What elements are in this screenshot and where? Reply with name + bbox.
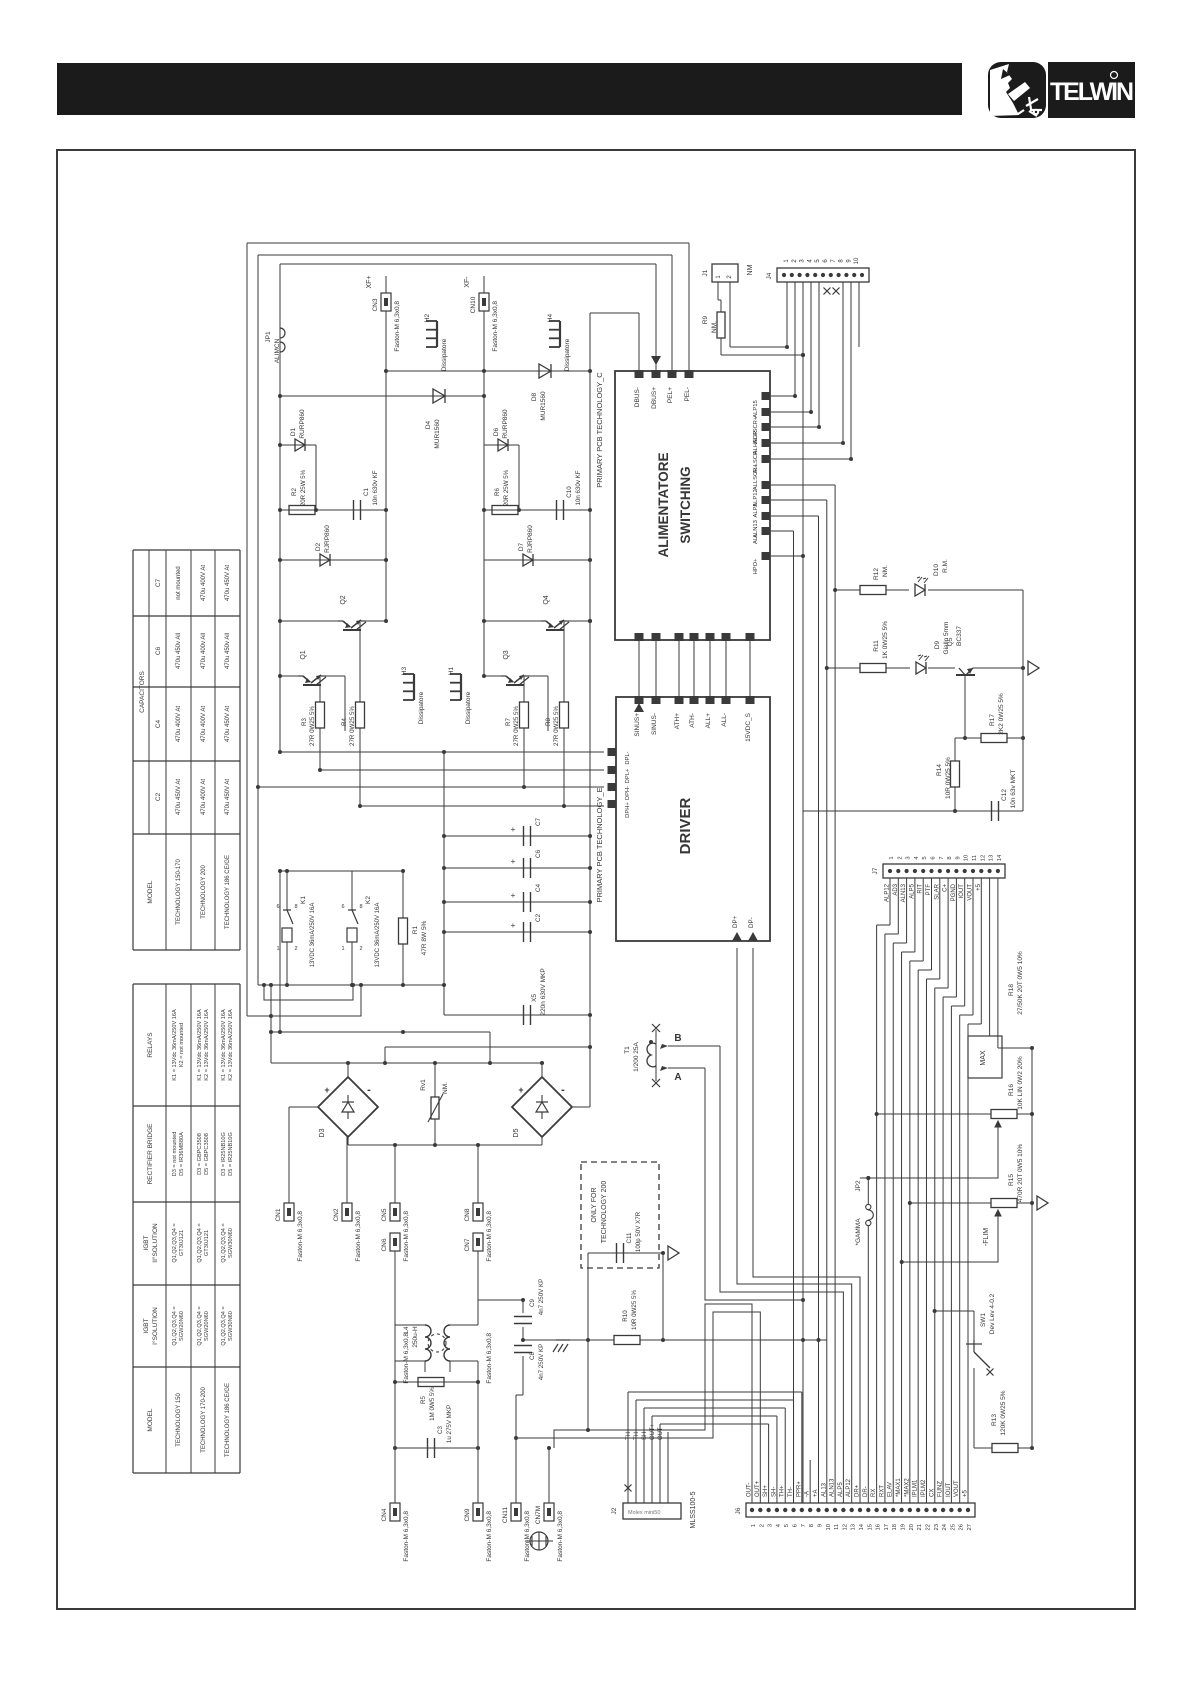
svg-text:10R 0W25 5%: 10R 0W25 5% (631, 1290, 638, 1330)
svg-text:Q4: Q4 (543, 595, 550, 604)
svg-text:SGW20N60: SGW20N60 (204, 1311, 210, 1341)
svg-text:1M 0W5 5%: 1M 0W5 5% (429, 1387, 436, 1421)
svg-text:PEL-: PEL- (684, 387, 691, 401)
svg-text:SGW20N60: SGW20N60 (179, 1311, 185, 1341)
svg-text:1: 1 (341, 946, 344, 952)
svg-text:D5 = IR36MB80A: D5 = IR36MB80A (179, 1132, 185, 1176)
svg-text:C2: C2 (535, 913, 542, 922)
svg-text:1: 1 (276, 946, 279, 952)
svg-text:ALIMCN: ALIMCN (274, 338, 281, 363)
svg-text:27R 0W25 5%: 27R 0W25 5% (309, 706, 316, 746)
svg-text:C1: C1 (363, 487, 370, 495)
svg-text:DP-: DP- (748, 917, 755, 928)
svg-text:470R 20T 0W5 10%: 470R 20T 0W5 10% (1017, 1144, 1024, 1203)
svg-text:+: + (518, 1085, 523, 1095)
svg-text:D1: D1 (290, 427, 297, 436)
svg-text:II°SOLUTION: II°SOLUTION (151, 1223, 159, 1263)
svg-text:13VDC 36mA/250V 16A: 13VDC 36mA/250V 16A (310, 903, 316, 968)
svg-text:10n 630v KF: 10n 630v KF (575, 470, 582, 505)
svg-text:470u 450V At: 470u 450V At (225, 706, 231, 742)
svg-text:R14: R14 (936, 764, 943, 776)
svg-text:MODEL: MODEL (147, 880, 154, 904)
svg-text:ALP12: ALP12 (846, 1478, 852, 1497)
svg-text:K2 = not mounted: K2 = not mounted (179, 1023, 185, 1067)
svg-text:AL13: AL13 (821, 1482, 827, 1497)
svg-text:DPL-: DPL- (625, 751, 631, 764)
svg-text:12: 12 (980, 855, 986, 861)
svg-text:10: 10 (854, 257, 860, 264)
svg-text:IGBT: IGBT (143, 1235, 150, 1250)
svg-text:R11: R11 (873, 640, 880, 652)
svg-text:NM.: NM. (711, 321, 718, 333)
svg-text:TH+: TH+ (780, 1485, 786, 1497)
svg-text:ALL-: ALL- (721, 713, 728, 727)
svg-text:Q1,Q2,Q3,Q4 =: Q1,Q2,Q3,Q4 = (197, 1306, 203, 1345)
svg-text:R16: R16 (1008, 1084, 1015, 1096)
svg-text:Q1,Q2,Q3,Q4 =: Q1,Q2,Q3,Q4 = (221, 1306, 227, 1345)
svg-text:C9: C9 (529, 1298, 536, 1306)
svg-text:22: 22 (925, 1524, 931, 1530)
svg-text:IPLM1: IPLM1 (913, 1479, 919, 1497)
svg-text:K1: K1 (300, 896, 307, 904)
svg-text:470u 400V At: 470u 400V At (201, 779, 207, 815)
svg-text:H2: H2 (424, 313, 431, 322)
svg-text:Molex mini50: Molex mini50 (628, 1510, 660, 1516)
svg-text:+: + (511, 921, 516, 930)
svg-text:-: - (367, 1084, 371, 1096)
svg-text:DR-: DR- (863, 1486, 869, 1497)
svg-text:25: 25 (950, 1524, 956, 1530)
svg-text:Faston-M 6,3x0,8: Faston-M 6,3x0,8 (524, 1511, 531, 1562)
svg-text:Dissipatore: Dissipatore (418, 691, 425, 724)
svg-text:Faston-M 6,3x0,8: Faston-M 6,3x0,8 (403, 1511, 410, 1562)
svg-text:RX: RX (871, 1489, 877, 1497)
svg-text:SINUS+: SINUS+ (634, 713, 641, 737)
svg-text:DPH-: DPH- (625, 786, 631, 800)
svg-text:ATH-: ATH- (689, 713, 696, 728)
svg-text:ATH+: ATH+ (674, 713, 681, 730)
svg-text:JP1: JP1 (265, 331, 272, 343)
svg-text:H3: H3 (401, 666, 408, 675)
svg-text:TECHNOLOGY 186 CE/GE: TECHNOLOGY 186 CE/GE (225, 1383, 231, 1457)
svg-text:J1: J1 (702, 269, 709, 276)
svg-text:8: 8 (947, 856, 953, 859)
svg-text:10: 10 (826, 1524, 832, 1530)
svg-text:OUT-: OUT- (747, 1483, 753, 1497)
svg-text:3: 3 (906, 856, 912, 859)
svg-text:7: 7 (801, 1524, 807, 1527)
svg-text:1: 1 (751, 1524, 757, 1527)
svg-text:Faston-M 6,3x0,8: Faston-M 6,3x0,8 (486, 1333, 493, 1384)
svg-text:D10: D10 (933, 564, 940, 576)
svg-text:*MAX2: *MAX2 (904, 1478, 910, 1497)
svg-text:10n 630v KF: 10n 630v KF (372, 470, 379, 505)
svg-text:17: 17 (884, 1524, 890, 1530)
svg-text:K2: K2 (365, 896, 372, 904)
svg-text:OUT+: OUT+ (755, 1480, 761, 1497)
svg-text:TH-: TH- (788, 1487, 794, 1497)
svg-text:DBUS+: DBUS+ (651, 387, 658, 409)
svg-text:15: 15 (867, 1524, 873, 1530)
svg-text:ALLSCR+: ALLSCR+ (753, 464, 759, 491)
svg-text:470u 450v All: 470u 450v All (225, 633, 231, 669)
svg-text:RECTIFIER BRIDGE: RECTIFIER BRIDGE (147, 1123, 154, 1185)
svg-text:16: 16 (876, 1524, 882, 1530)
svg-text:4n7 250V KP: 4n7 250V KP (538, 1279, 545, 1315)
svg-text:21: 21 (917, 1524, 923, 1530)
svg-text:+: + (511, 891, 516, 900)
svg-text:470u 450V At: 470u 450V At (225, 565, 231, 601)
svg-text:TECHNOLOGY 186 CE/GE: TECHNOLOGY 186 CE/GE (225, 855, 231, 929)
svg-text:8: 8 (809, 1524, 815, 1527)
svg-text:ALL: ALL (753, 533, 759, 544)
svg-text:+: + (511, 825, 516, 834)
svg-text:Q1,Q2,Q3,Q4 =: Q1,Q2,Q3,Q4 = (221, 1223, 227, 1262)
svg-text:H4: H4 (547, 313, 554, 322)
svg-text:DPH+: DPH+ (625, 802, 631, 818)
svg-text:Dissipatore: Dissipatore (564, 338, 571, 371)
svg-text:RELAYS: RELAYS (147, 1032, 154, 1058)
svg-text:R10: R10 (622, 1310, 629, 1322)
svg-text:TECHNOLOGY 150: TECHNOLOGY 150 (176, 1393, 182, 1447)
svg-text:8: 8 (359, 904, 362, 910)
svg-text:10: 10 (964, 855, 970, 861)
svg-text:ALP5: ALP5 (753, 503, 759, 517)
svg-text:NM.: NM. (442, 1082, 449, 1094)
svg-text:R12: R12 (873, 568, 880, 580)
svg-text:J2: J2 (611, 1507, 618, 1514)
svg-text:220n 630V MKP: 220n 630V MKP (540, 968, 547, 1015)
svg-text:XF-: XF- (464, 276, 471, 288)
svg-text:IOUT: IOUT (946, 1482, 952, 1497)
svg-text:27R 0W25 5%: 27R 0W25 5% (349, 706, 356, 746)
svg-text:DPL+: DPL+ (625, 768, 631, 783)
svg-text:K1 = 13Vdc 36mA/250V 16A: K1 = 13Vdc 36mA/250V 16A (197, 1009, 203, 1081)
svg-text:R7: R7 (505, 717, 512, 725)
svg-text:CN3: CN3 (372, 298, 379, 311)
svg-text:10n 63v MKT: 10n 63v MKT (1010, 770, 1017, 809)
svg-text:BC337: BC337 (956, 626, 963, 646)
svg-text:K1 = 13Vdc 36mA/250V 16A: K1 = 13Vdc 36mA/250V 16A (221, 1009, 227, 1081)
svg-text:27R 0W25 5%: 27R 0W25 5% (513, 706, 520, 746)
svg-text:120K 0W25 5%: 120K 0W25 5% (1000, 1390, 1007, 1435)
svg-text:MODEL: MODEL (147, 1408, 154, 1432)
svg-text:R9: R9 (702, 315, 709, 324)
svg-text:Faston-M 6,3x0,8: Faston-M 6,3x0,8 (403, 1333, 410, 1384)
svg-text:6: 6 (931, 856, 937, 859)
svg-text:11: 11 (834, 1524, 840, 1530)
svg-text:D3 = IR25NB10G: D3 = IR25NB10G (221, 1132, 227, 1176)
svg-text:K1 = 13Vdc 36mA/250V 16A: K1 = 13Vdc 36mA/250V 16A (172, 1009, 178, 1081)
svg-text:14: 14 (859, 1523, 865, 1530)
svg-text:C8: C8 (529, 1351, 536, 1359)
svg-text:D6: D6 (493, 427, 500, 436)
svg-text:D5: D5 (513, 1128, 520, 1137)
svg-text:R1: R1 (412, 925, 419, 934)
svg-text:3: 3 (768, 1524, 774, 1527)
svg-text:CN4: CN4 (381, 1508, 388, 1521)
svg-text:Faston-M 6,3x0,8: Faston-M 6,3x0,8 (394, 301, 401, 352)
svg-text:CX: CX (929, 1489, 935, 1497)
svg-text:20: 20 (909, 1524, 915, 1530)
svg-text:FUNZ: FUNZ (938, 1481, 944, 1497)
svg-text:PRIMARY PCB TECHNOLOGY_E: PRIMARY PCB TECHNOLOGY_E (595, 787, 604, 902)
svg-text:CN6: CN6 (381, 1238, 388, 1251)
svg-text:470u 400V At: 470u 400V At (176, 706, 182, 742)
svg-text:ALP15: ALP15 (753, 400, 759, 417)
svg-text:Q1,Q2,Q3,Q4 =: Q1,Q2,Q3,Q4 = (172, 1306, 178, 1345)
svg-text:T1: T1 (624, 1046, 631, 1054)
svg-text:SH+: SH+ (763, 1485, 769, 1497)
svg-text:10K LIN 0W2 20%: 10K LIN 0W2 20% (1017, 1056, 1024, 1110)
svg-text:D3 = not mounted: D3 = not mounted (172, 1132, 178, 1177)
svg-text:RJRP860: RJRP860 (324, 525, 331, 553)
svg-text:VOUT: VOUT (954, 1480, 960, 1497)
svg-text:RURP860: RURP860 (502, 409, 509, 439)
svg-text:ALIMENTATORE: ALIMENTATORE (656, 453, 671, 558)
svg-text:100p 50V X7R: 100p 50V X7R (635, 1211, 642, 1252)
svg-text:19: 19 (901, 1524, 907, 1530)
svg-text:8: 8 (294, 904, 297, 910)
svg-text:B: B (674, 1033, 681, 1044)
svg-text:SINUS-: SINUS- (651, 713, 658, 735)
svg-text:R8: R8 (545, 717, 552, 725)
svg-text:27/50K 20T 0W5 10%: 27/50K 20T 0W5 10% (1017, 951, 1024, 1015)
svg-text:PRIMARY PCB TECHNOLOGY_C: PRIMARY PCB TECHNOLOGY_C (595, 372, 604, 488)
svg-text:14: 14 (997, 854, 1003, 861)
svg-text:-FLIM: -FLIM (983, 1228, 990, 1246)
svg-text:2: 2 (359, 946, 362, 952)
svg-text:not mounted: not mounted (176, 566, 182, 599)
svg-text:PEL+: PEL+ (667, 387, 674, 403)
svg-text:9: 9 (817, 1524, 823, 1527)
svg-text:GT30J121: GT30J121 (204, 1230, 210, 1256)
svg-text:J7: J7 (872, 867, 879, 874)
svg-text:13: 13 (989, 855, 995, 861)
svg-text:470u 400v All: 470u 400v All (201, 633, 207, 669)
svg-text:X5: X5 (531, 994, 538, 1002)
svg-text:SWITCHING: SWITCHING (678, 466, 693, 543)
svg-text:Faston-M 6,3x0,8: Faston-M 6,3x0,8 (486, 1211, 493, 1262)
svg-text:ALP5: ALP5 (838, 1482, 844, 1497)
svg-text:R3: R3 (301, 717, 308, 725)
svg-text:-A: -A (805, 1491, 811, 1497)
svg-text:MUR1560: MUR1560 (540, 391, 547, 421)
svg-text:SH-: SH- (771, 1487, 777, 1497)
svg-text:27: 27 (967, 1524, 973, 1530)
svg-text:CN10: CN10 (470, 296, 477, 313)
svg-text:SW1: SW1 (980, 1313, 987, 1327)
svg-text:470u 450V At: 470u 450V At (176, 779, 182, 815)
svg-text:C12: C12 (1001, 789, 1008, 801)
svg-text:TECHNOLOGY 200: TECHNOLOGY 200 (201, 865, 207, 919)
svg-text:23: 23 (934, 1524, 940, 1530)
svg-text:J4: J4 (766, 272, 773, 279)
svg-text:47R 8W 5%: 47R 8W 5% (421, 920, 428, 955)
svg-text:CN11: CN11 (502, 1507, 509, 1524)
svg-text:13VDC 36mA/250V 16A: 13VDC 36mA/250V 16A (375, 903, 381, 968)
svg-text:470u 400V At: 470u 400V At (201, 706, 207, 742)
svg-text:SGW30N60: SGW30N60 (228, 1311, 234, 1341)
svg-text:250u-H: 250u-H (412, 1326, 419, 1348)
svg-text:DP+: DP+ (732, 915, 739, 928)
svg-text:C2: C2 (155, 792, 162, 801)
svg-text:NM: NM (747, 264, 754, 275)
svg-text:R18: R18 (1008, 984, 1015, 996)
svg-text:IPLM2: IPLM2 (921, 1479, 927, 1497)
svg-text:Dissipatore: Dissipatore (441, 338, 448, 371)
svg-text:Faston-M 6,3x0,8: Faston-M 6,3x0,8 (492, 301, 499, 352)
svg-text:DBUS-: DBUS- (634, 387, 641, 407)
svg-text:Q2: Q2 (340, 595, 347, 604)
svg-text:CN2: CN2 (333, 1208, 340, 1221)
svg-text:1/200 25A: 1/200 25A (633, 1042, 640, 1072)
svg-text:CN1: CN1 (275, 1208, 282, 1221)
svg-text:6: 6 (793, 1524, 799, 1527)
svg-text:15VDC_S: 15VDC_S (745, 712, 752, 742)
svg-text:18: 18 (892, 1524, 898, 1530)
svg-text:470u 450V At: 470u 450V At (225, 779, 231, 815)
svg-text:C6: C6 (155, 646, 162, 655)
svg-text:GT30J121: GT30J121 (179, 1230, 185, 1256)
svg-text:Dissipatore: Dissipatore (465, 691, 472, 724)
svg-text:CAPACITORS: CAPACITORS (139, 671, 146, 713)
svg-text:R.M.: R.M. (942, 559, 949, 573)
svg-text:A: A (674, 1072, 681, 1083)
svg-text:20R 25W 5%: 20R 25W 5% (503, 469, 510, 506)
svg-text:470u 450v All: 470u 450v All (176, 633, 182, 669)
svg-text:CN5: CN5 (381, 1208, 388, 1221)
svg-text:MLSS100-5: MLSS100-5 (690, 1491, 697, 1528)
svg-text:R5: R5 (420, 1395, 427, 1403)
svg-text:NM.: NM. (882, 565, 889, 577)
svg-text:C7: C7 (155, 578, 162, 587)
svg-text:Q1: Q1 (300, 650, 307, 659)
svg-text:Q1,Q2,Q3,Q4 =: Q1,Q2,Q3,Q4 = (172, 1223, 178, 1262)
svg-text:MUR1560: MUR1560 (434, 419, 441, 449)
svg-text:C4: C4 (155, 719, 162, 728)
svg-text:J6: J6 (735, 1507, 742, 1514)
svg-text:Faston-M 6,3x0,8: Faston-M 6,3x0,8 (297, 1211, 304, 1262)
svg-text:5: 5 (922, 856, 928, 859)
svg-text:*MAX1: *MAX1 (896, 1478, 902, 1497)
svg-text:TECHNOLOGY 150-170: TECHNOLOGY 150-170 (176, 859, 182, 925)
svg-text:C4: C4 (535, 883, 542, 892)
svg-text:27R 0W25 5%: 27R 0W25 5% (553, 706, 560, 746)
svg-text:D5 = IR25NB10G: D5 = IR25NB10G (228, 1132, 234, 1176)
svg-text:R2: R2 (291, 487, 298, 495)
svg-text:SGW30N60: SGW30N60 (228, 1228, 234, 1258)
svg-text:TECHNOLOGY 200: TECHNOLOGY 200 (601, 1181, 608, 1244)
svg-text:C10: C10 (566, 486, 573, 498)
svg-text:ELAV: ELAV (888, 1482, 894, 1497)
svg-text:2K2 0W25 5%: 2K2 0W25 5% (998, 693, 1005, 735)
svg-text:TECHNOLOGY 170-200: TECHNOLOGY 170-200 (201, 1387, 207, 1453)
svg-text:*GAMMA: *GAMMA (855, 1218, 862, 1246)
svg-text:I°SOLUTION: I°SOLUTION (151, 1307, 159, 1345)
svg-text:K2 = 13Vdc 36mA/250V 16A: K2 = 13Vdc 36mA/250V 16A (204, 1009, 210, 1081)
svg-text:L4: L4 (403, 1326, 410, 1334)
svg-text:CN7: CN7 (464, 1238, 471, 1251)
svg-text:CN9: CN9 (464, 1508, 471, 1521)
svg-text:RJRP860: RJRP860 (527, 525, 534, 553)
svg-text:24: 24 (942, 1523, 948, 1530)
svg-text:C11: C11 (626, 1232, 633, 1243)
svg-text:26: 26 (959, 1524, 965, 1530)
svg-text:6: 6 (341, 904, 344, 910)
svg-text:D3 = GBPC3508: D3 = GBPC3508 (197, 1133, 203, 1175)
svg-text:ALN13: ALN13 (830, 1478, 836, 1497)
svg-text:RURP860: RURP860 (299, 409, 306, 439)
svg-text:R6: R6 (494, 487, 501, 495)
svg-text:+A: +A (813, 1489, 819, 1497)
svg-text:D2: D2 (315, 542, 322, 551)
svg-text:CN7M: CN7M (535, 1506, 542, 1524)
svg-text:D3: D3 (319, 1128, 326, 1137)
svg-text:MAX: MAX (980, 1050, 987, 1066)
svg-text:JP2: JP2 (855, 1180, 862, 1192)
svg-text:12: 12 (842, 1524, 848, 1530)
svg-text:ALL+: ALL+ (705, 713, 712, 729)
svg-text:TELWIN: TELWIN (1050, 78, 1133, 106)
svg-text:CN8: CN8 (464, 1208, 471, 1221)
svg-text:20R 25W 5%: 20R 25W 5% (300, 469, 307, 506)
svg-text:RXT: RXT (879, 1485, 885, 1497)
svg-text:Faston-M 6,3x0,8: Faston-M 6,3x0,8 (403, 1211, 410, 1262)
svg-text:D5 = GBPC3508: D5 = GBPC3508 (204, 1133, 210, 1175)
svg-text:Faston-M 6,3x0,8: Faston-M 6,3x0,8 (355, 1211, 362, 1262)
svg-text:R13: R13 (991, 1414, 998, 1426)
svg-text:Dev Lev 4-0.2: Dev Lev 4-0.2 (989, 1293, 996, 1334)
svg-text:R4: R4 (341, 717, 348, 725)
svg-text:IGBT: IGBT (143, 1318, 150, 1333)
svg-text:1u 275V MKP: 1u 275V MKP (446, 1405, 453, 1443)
svg-text:6: 6 (276, 904, 279, 910)
svg-text:C7: C7 (535, 817, 542, 826)
svg-text:2: 2 (897, 856, 903, 859)
svg-text:C6: C6 (535, 849, 542, 858)
svg-text:2: 2 (294, 946, 297, 952)
svg-text:-: - (561, 1084, 565, 1096)
svg-text:Q3: Q3 (503, 650, 510, 659)
svg-text:R15: R15 (1008, 1174, 1015, 1186)
svg-text:PPR+: PPR+ (796, 1481, 802, 1497)
svg-text:H1: H1 (448, 666, 455, 675)
svg-text:11: 11 (972, 855, 978, 861)
svg-text:DRIVER: DRIVER (677, 798, 694, 855)
svg-text:Faston-M 6,3x0,8: Faston-M 6,3x0,8 (557, 1511, 564, 1562)
svg-text:+5: +5 (963, 1489, 969, 1497)
svg-text:Faston-M 6,3x0,8: Faston-M 6,3x0,8 (486, 1511, 493, 1562)
svg-text:HPO+: HPO+ (753, 558, 759, 575)
svg-text:Q5: Q5 (947, 637, 954, 646)
svg-text:D4: D4 (425, 420, 432, 429)
svg-text:2: 2 (759, 1524, 765, 1527)
svg-text:13: 13 (851, 1524, 857, 1530)
svg-text:Q1,Q2,Q3,Q4 =: Q1,Q2,Q3,Q4 = (197, 1223, 203, 1262)
svg-text:Rv1: Rv1 (420, 1079, 427, 1091)
svg-text:R17: R17 (989, 714, 996, 726)
svg-text:470u 400V At: 470u 400V At (201, 565, 207, 601)
svg-text:5: 5 (784, 1524, 790, 1527)
svg-text:XF+: XF+ (366, 275, 373, 288)
svg-text:+: + (511, 857, 516, 866)
svg-text:9: 9 (955, 856, 961, 859)
svg-text:DR+: DR+ (855, 1484, 861, 1497)
svg-text:4n7 250V KP: 4n7 250V KP (538, 1344, 545, 1380)
svg-text:10R 0W25 5%: 10R 0W25 5% (945, 757, 952, 799)
svg-text:C3: C3 (437, 1425, 444, 1433)
